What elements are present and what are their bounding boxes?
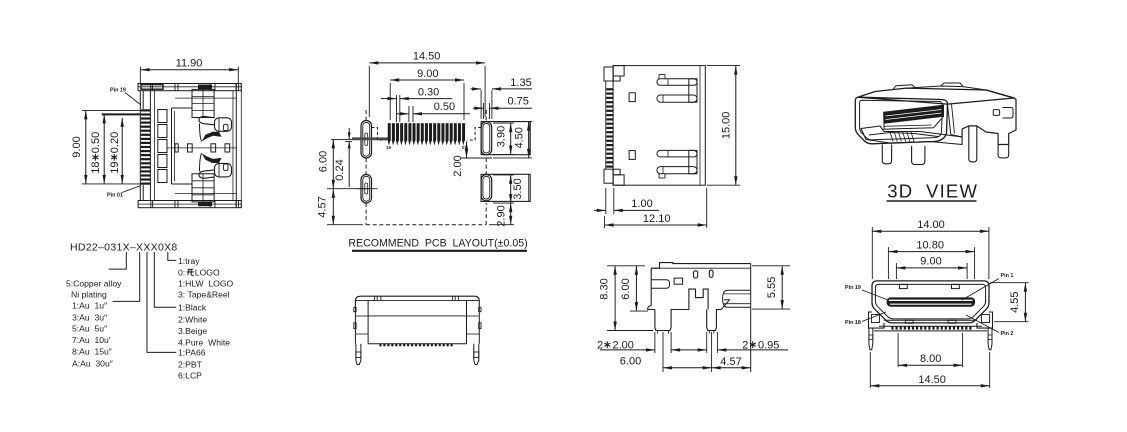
svg-text:3D VIEW: 3D VIEW [887,181,978,202]
view C: connector end view [604,66,705,186]
svg-text:18: 18 [90,162,102,174]
dim 9.00 [389,83,391,120]
bottom spring contact [657,150,697,157]
view F: side view with leg dims [648,263,751,372]
dim 1.35 [480,90,482,119]
svg-text:LOGO: LOGO [195,267,220,277]
legs view E [356,344,361,365]
dim 14.00 [871,227,873,279]
svg-text:Pin 19: Pin 19 [110,88,126,94]
right pad bottom with tail [481,174,530,201]
svg-text:Pin 18: Pin 18 [845,320,861,326]
svg-text:14.00: 14.00 [917,219,945,231]
svg-text:5:Au 5u″: 5:Au 5u″ [72,324,107,334]
dim 0.24 [345,140,352,142]
svg-text:Ni plating: Ni plating [71,290,107,300]
dim 2x0.95 [706,332,708,353]
dim 0.50 [408,106,410,122]
svg-text:Pin 19: Pin 19 [845,285,861,291]
middle studs [175,144,178,152]
svg-text:HD22–031X–XXX0X8: HD22–031X–XXX0X8 [70,242,178,254]
svg-text:5:Copper alloy: 5:Copper alloy [66,279,122,289]
svg-text:4.50: 4.50 [514,127,526,148]
svg-text:3.50: 3.50 [512,178,524,199]
svg-text:5.55: 5.55 [766,277,778,298]
svg-text:11.90: 11.90 [176,57,203,69]
top spring contact [657,79,697,86]
svg-text:1:Black: 1:Black [178,303,207,313]
left pad top [361,121,372,159]
lower clip [215,163,232,177]
leader lines [109,252,127,269]
gray centerline [352,137,389,140]
svg-text:9.00: 9.00 [920,256,941,268]
dim 4.57 bottom [712,367,751,369]
svg-text:1:Au 1u″: 1:Au 1u″ [72,300,107,310]
view D: 3D perspective sketch [855,83,1016,165]
svg-text:3: Tape&Reel: 3: Tape&Reel [178,290,230,300]
dim 3.50 [493,174,514,176]
svg-text:9.00: 9.00 [417,68,438,80]
contact stack [158,110,167,123]
dim 2x2.00 [654,332,656,353]
svg-text:1:HLW LOGO: 1:HLW LOGO [178,279,234,289]
dim 9.00 G [895,263,897,279]
dim 5.55 [752,265,790,267]
dim 9.00 / 18*0.50 / 19*0.20 [82,109,140,111]
dim 14.50 G [869,352,871,388]
svg-text:2:PBT: 2:PBT [178,359,203,369]
dim 0.75 [483,103,485,119]
view A: connector side view (left) [138,84,241,208]
svg-text:6.00: 6.00 [620,356,641,368]
dim 4.57 left [327,224,363,226]
svg-text:0.24: 0.24 [334,159,346,180]
back plate [962,90,1016,145]
svg-text:0.75: 0.75 [507,95,528,107]
svg-text:1:tray: 1:tray [178,256,200,266]
legs view G [869,328,873,350]
svg-text:8.30: 8.30 [598,278,610,299]
dim 0.30 [396,95,398,122]
svg-text:1.00: 1.00 [631,198,652,210]
svg-text:1:PA66: 1:PA66 [178,348,206,358]
svg-text:0.95: 0.95 [758,339,779,351]
dim 6.00 bottom [662,332,664,372]
svg-text:10.80: 10.80 [916,239,944,251]
dim 2.00 [466,142,468,159]
svg-text:3:Au 3u″: 3:Au 3u″ [72,313,107,323]
svg-text:19: 19 [386,145,391,150]
svg-text:7:Au 10u′: 7:Au 10u′ [72,335,111,345]
svg-text:2.00: 2.00 [613,339,634,351]
dim 2.90 [510,203,512,225]
svg-text:15.00: 15.00 [720,112,732,140]
view G: receptacle front view [869,281,993,350]
svg-text:Pin 01: Pin 01 [107,193,123,199]
svg-text:2.00: 2.00 [452,155,464,176]
left pad bottom [361,175,372,204]
right pad top with tail [481,122,530,155]
view E: connector front elevation [354,296,481,364]
svg-text:2:White: 2:White [178,315,207,325]
svg-text:Pin 1: Pin 1 [1001,273,1014,279]
pin pads row (19) [388,123,391,141]
shell inner corner lines [948,105,951,135]
dim 14.50 [368,66,370,117]
svg-text:14.50: 14.50 [413,51,441,63]
dim 12.10 [604,216,606,228]
svg-text:4.Pure White: 4.Pure White [178,337,230,347]
bottom serration [379,344,381,347]
svg-text:12.10: 12.10 [643,213,671,225]
dim 10.80 [887,247,889,279]
svg-text:1.35: 1.35 [510,77,531,89]
svg-text:4.57: 4.57 [720,356,741,368]
tongue (dark) [884,105,944,123]
svg-text:8.00: 8.00 [920,353,941,365]
svg-text:9.00: 9.00 [71,136,83,157]
svg-text:6.00: 6.00 [317,151,329,172]
svg-text:0.50: 0.50 [434,101,455,113]
svg-text:2: 2 [742,339,748,351]
mount ears [869,312,885,328]
dim 11.90 [139,67,141,85]
svg-text:0:: 0: [178,267,185,277]
legs [882,145,891,164]
dim 6.00 vert [630,310,648,312]
svg-text:6.00: 6.00 [620,278,632,299]
front shell ring [855,97,947,144]
svg-text:4.57: 4.57 [317,196,329,217]
svg-text:3.Beige: 3.Beige [178,326,207,336]
svg-text:RECOMMEND PCB LAYOUT(±0.05): RECOMMEND PCB LAYOUT(±0.05) [348,238,527,250]
svg-text:8:Au 15u″: 8:Au 15u″ [72,347,112,357]
svg-text:4.55: 4.55 [1009,291,1021,312]
dashed footprint outline [365,110,367,121]
svg-text:6:LCP: 6:LCP [178,371,202,381]
svg-text:14.50: 14.50 [918,374,946,386]
dim 8.30 [607,265,645,267]
svg-text:0.50: 0.50 [90,132,102,153]
lower flange [861,126,962,145]
svg-text:A:Au 30u″: A:Au 30u″ [72,358,113,368]
pin comb (19 contacts) [141,109,151,111]
svg-text:3.90: 3.90 [496,126,508,147]
dim 15.00 [707,65,740,67]
upper clip [215,118,232,132]
lower band [884,319,977,321]
wu glyph [187,269,194,275]
svg-text:2: 2 [597,339,603,351]
svg-text:0.30: 0.30 [418,86,439,98]
dim 1.00 [605,188,607,214]
svg-text:19: 19 [109,162,121,174]
dim 4.55 [990,282,1029,284]
svg-text:0.20: 0.20 [109,132,121,153]
dim 6.00 left [331,138,352,140]
dim 3.90 / 4.50 [493,122,514,124]
svg-text:2.90: 2.90 [495,205,507,226]
tongue bar [887,297,976,306]
svg-text:Pin 2: Pin 2 [1001,331,1014,337]
dim 8.00 [897,333,899,367]
